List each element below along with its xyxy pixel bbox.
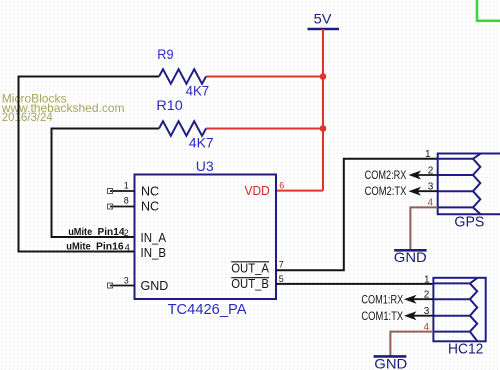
svg-text:7: 7 xyxy=(279,259,284,269)
connector HC12 body xyxy=(433,278,485,342)
svg-text:4K7: 4K7 xyxy=(186,82,210,98)
wire GPS pin 4 to GND (brown) xyxy=(410,207,437,249)
svg-text:IN_B: IN_B xyxy=(141,246,167,260)
svg-text:5: 5 xyxy=(279,274,284,284)
svg-text:3: 3 xyxy=(124,275,129,285)
svg-text:Pin16: Pin16 xyxy=(96,241,124,252)
green sheet-symbol corner (clipped, top right) xyxy=(477,0,500,21)
svg-text:8: 8 xyxy=(124,196,129,206)
svg-text:GND: GND xyxy=(374,356,407,370)
svg-text:R9: R9 xyxy=(157,46,173,62)
wire 5V vertical (red) xyxy=(322,29,324,191)
port COM2:TX xyxy=(365,184,438,198)
U3 pin 3 GND xyxy=(108,275,169,293)
svg-text:4K7: 4K7 xyxy=(189,135,214,151)
svg-text:OUT_B: OUT_B xyxy=(231,277,269,291)
svg-text:uMite: uMite xyxy=(66,241,91,252)
net label uMite Pin14 xyxy=(68,227,125,238)
ground symbol (GPS) xyxy=(394,249,427,265)
svg-text:NC: NC xyxy=(141,184,159,198)
wire 5V to U3 pin 6 VDD (red) xyxy=(276,190,323,192)
svg-text:TC4426_PA: TC4426_PA xyxy=(168,302,247,318)
svg-text:GND: GND xyxy=(394,249,427,265)
svg-text:2: 2 xyxy=(124,228,129,238)
svg-text:OUT_A: OUT_A xyxy=(231,261,269,275)
connector GPS body (right edge clipped) xyxy=(438,154,500,215)
svg-text:COM2:RX: COM2:RX xyxy=(365,168,407,182)
svg-text:1: 1 xyxy=(425,149,431,160)
wire U3 pin 7 OUT_A to GPS pin 1 xyxy=(276,159,438,270)
svg-text:uMite: uMite xyxy=(68,227,92,238)
svg-text:GND: GND xyxy=(141,279,169,293)
port COM1:TX xyxy=(361,309,433,323)
port COM1:RX xyxy=(361,292,433,306)
svg-text:NC: NC xyxy=(141,199,159,213)
wire HC12 pin 4 to GND (brown) xyxy=(390,332,433,356)
U3 pin 6 VDD xyxy=(245,181,285,199)
ground symbol (HC12) xyxy=(374,356,408,370)
U3 pin 4 IN_B xyxy=(125,242,166,259)
svg-text:1: 1 xyxy=(124,180,129,190)
svg-text:1: 1 xyxy=(424,274,430,285)
svg-text:6: 6 xyxy=(279,181,284,191)
port COM2:RX xyxy=(365,168,438,182)
wire R10 left / uMite Pin14 to U3 pin 2 xyxy=(52,129,160,238)
wire R10 right to 5V (red) xyxy=(206,128,323,130)
svg-text:COM2:TX: COM2:TX xyxy=(365,184,407,198)
svg-text:U3: U3 xyxy=(196,158,214,174)
svg-text:GPS: GPS xyxy=(454,215,484,231)
title block text (MicroBlocks / www.thebackshed.com / 2016/3/24) xyxy=(1,91,125,124)
U3 pin 2 IN_A xyxy=(124,228,167,245)
svg-text:HC12: HC12 xyxy=(448,342,483,358)
svg-text:COM1:TX: COM1:TX xyxy=(361,309,403,323)
svg-text:Pin14: Pin14 xyxy=(98,227,125,238)
svg-text:IN_A: IN_A xyxy=(141,231,167,245)
junction at R9/5V xyxy=(320,73,327,80)
U3 pin 1 NC xyxy=(108,180,160,198)
svg-text:2016/3/24: 2016/3/24 xyxy=(2,110,53,124)
power port 5V xyxy=(308,11,340,29)
junction at R10/5V xyxy=(320,125,327,132)
svg-text:5V: 5V xyxy=(314,11,333,27)
svg-text:4: 4 xyxy=(125,242,130,252)
U3 pin 5 OUT_B (active low) xyxy=(231,274,284,291)
IC U3 TC4426_PA body xyxy=(135,158,277,318)
resistor R9 xyxy=(157,46,209,98)
wire R9 right to 5V (red) xyxy=(206,76,323,78)
wire R9 left / uMite Pin16 to U3 pin 4 xyxy=(19,77,160,252)
svg-text:COM1:RX: COM1:RX xyxy=(361,292,403,306)
U3 pin 7 OUT_A (active low) xyxy=(231,259,284,275)
svg-text:R10: R10 xyxy=(156,97,183,113)
U3 pin 8 NC xyxy=(108,196,160,214)
wire U3 pin 5 OUT_B to HC12 pin 1 xyxy=(276,283,433,285)
resistor R10 xyxy=(156,97,213,151)
svg-text:VDD: VDD xyxy=(245,184,270,198)
net label uMite Pin16 xyxy=(66,241,124,252)
